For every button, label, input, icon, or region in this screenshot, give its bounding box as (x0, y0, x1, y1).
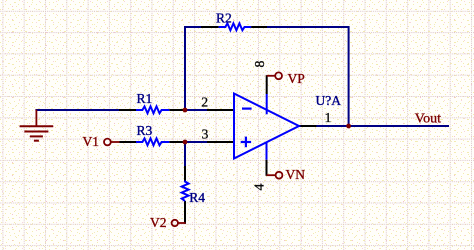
svg-text:1: 1 (325, 110, 332, 125)
svg-text:2: 2 (201, 94, 208, 109)
svg-text:R1: R1 (137, 91, 153, 106)
svg-text:V2: V2 (150, 215, 167, 230)
svg-text:VP: VP (288, 71, 305, 86)
svg-text:R4: R4 (189, 190, 205, 205)
svg-text:R2: R2 (216, 11, 232, 26)
svg-text:R3: R3 (137, 123, 153, 138)
svg-text:8: 8 (252, 60, 267, 67)
svg-text:3: 3 (202, 127, 209, 142)
svg-text:U?A: U?A (316, 93, 342, 108)
svg-text:Vout: Vout (415, 111, 441, 126)
svg-text:VN: VN (286, 167, 306, 182)
svg-text:V1: V1 (83, 134, 100, 149)
svg-text:4: 4 (252, 183, 267, 190)
